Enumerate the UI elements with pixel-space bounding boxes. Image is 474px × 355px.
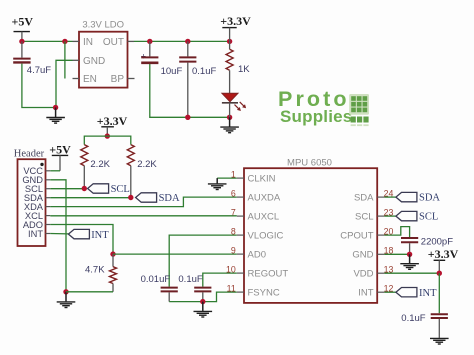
net flag INT (right) [396,288,437,299]
pin 9 stub [231,246,244,256]
resistor 1K [226,41,250,93]
IC U2 MPU 6050 [244,157,377,303]
wire SDA pin 24 [384,196,396,198]
pin 20 stub [377,227,393,237]
connector J1 Header [14,148,51,246]
svg-text:CLKIN: CLKIN [248,174,276,185]
svg-text:VLOGIC: VLOGIC [248,231,284,242]
junction lower rail LED [227,115,232,120]
wire GND net from header [50,180,66,292]
junction at +5V / C1 [19,39,24,44]
svg-text:GND: GND [83,56,105,67]
junction +3.3V / R1 [227,39,232,44]
svg-text:SCL: SCL [419,212,438,223]
svg-text:INT: INT [358,288,374,299]
capacitor 10uF [141,41,183,77]
junction header ground [63,289,68,294]
junction cap ground rail [200,299,205,304]
power symbol +3.3V (regulator output) [220,14,251,41]
wire EN to input rail [64,41,66,78]
ground (C7) [430,338,449,344]
pin 24 stub [377,189,393,199]
ground (LED) [220,117,239,132]
svg-text:SDA: SDA [419,193,440,204]
svg-text:AUXCL: AUXCL [248,212,280,223]
wire SCL pin 23 [384,215,396,217]
pin 11 stub [227,284,244,294]
svg-text:+3.3V: +3.3V [97,114,128,128]
svg-text:MPU 6050: MPU 6050 [287,157,332,168]
wire XCL to AUXCL [50,215,237,217]
wire XDA to AUXDA [50,197,237,207]
wire INT pin 12 [384,291,396,293]
junction SCL [82,186,87,191]
power symbol +3.3V (pullups) [97,114,128,136]
svg-text:0.1uF: 0.1uF [178,274,202,285]
svg-text:IN: IN [83,37,93,48]
svg-text:1K: 1K [238,64,250,75]
resistor R4 4.7K [85,254,117,292]
junction C3 tap [185,39,190,44]
svg-text:AUXDA: AUXDA [248,193,281,204]
pin 7 stub [231,208,244,218]
junction EN tap [62,39,67,44]
svg-text:SCL: SCL [355,212,373,223]
svg-text:0.01uF: 0.01uF [141,274,171,285]
pin 12 stub [377,284,393,294]
pin 13 stub [377,265,393,275]
wire SDA net header to pullup [50,197,131,199]
wire LDO GND pin to ground [56,60,73,105]
svg-text:AD0: AD0 [248,250,266,261]
svg-text:2200pF: 2200pF [421,237,453,248]
ground (CLKIN) [208,178,227,189]
net flag SCL (left) [88,184,130,195]
svg-text:INT: INT [28,229,43,239]
capacitor C7 0.1uF (VDD) [401,313,448,338]
svg-text:+3.3V: +3.3V [428,247,459,261]
svg-text:2.2K: 2.2K [90,159,110,170]
wire GND pin 18 [384,253,409,255]
wire CLKIN to ground [217,177,237,179]
svg-text:SDA: SDA [354,193,374,204]
pin 1 stub [231,170,244,180]
svg-text:GND: GND [352,250,373,261]
wire CPOUT to C6 [384,227,409,237]
junction C2 tap [147,39,152,44]
wire R4 to header ground [66,291,113,293]
wire VDD to C7 [438,273,440,313]
capacitor 0.1uF (LDO out) [179,41,216,117]
svg-text:SCL: SCL [111,184,130,195]
wire +5V rail [22,40,73,42]
junction AD0 / R4 [110,251,115,256]
svg-text:OUT: OUT [103,37,124,48]
net flag SDA (left) [136,193,180,204]
svg-text:6: 6 [231,189,236,199]
wire VCC to +5V [50,170,60,172]
wire LDO OUT rail 3.3V [134,40,230,42]
svg-text:10uF: 10uF [161,66,183,77]
svg-text:INT: INT [91,230,109,241]
junction VDD [437,271,442,276]
svg-text:Header: Header [14,148,45,159]
wire AD0 to pin 9 [113,253,237,255]
wire lower rail to LED ground [188,116,230,118]
svg-text:SDA: SDA [159,193,180,204]
power symbol +5V [12,15,34,42]
ground (pin 18) [400,254,419,269]
pin 8 stub [231,227,244,237]
wire INT net from header [50,233,68,235]
pin 23 stub [377,208,393,218]
capacitor 4.7uF [13,41,51,76]
svg-text:3.3V LDO: 3.3V LDO [82,20,124,31]
svg-text:VDD: VDD [353,269,373,280]
svg-text:BP: BP [111,74,125,85]
svg-text:4.7K: 4.7K [85,264,105,275]
pin 18 stub [377,246,393,256]
wire FSYNC to cap rail [169,292,237,302]
junction pullup rail [105,133,110,138]
resistor R3 2.2K (SDA pullup) [127,145,157,198]
svg-text:7: 7 [231,208,236,218]
svg-text:+5V: +5V [12,15,34,29]
capacitor C6 2200pF [401,237,453,255]
junction SDA [128,195,133,200]
svg-text:REGOUT: REGOUT [248,269,289,280]
svg-text:EN: EN [83,74,97,85]
wire SCL net header to pullup [50,188,84,190]
wire C2 to lower rail [150,64,188,117]
power symbol +5V (header) [49,142,71,170]
junction C6 / GND [407,252,412,257]
regulator U1 3.3V LDO [73,20,135,88]
logo Proto Supplies [278,87,369,126]
wire pullup rail [84,136,131,145]
svg-text:0.1uF: 0.1uF [192,66,216,77]
svg-text:2.2K: 2.2K [137,159,157,170]
junction lower rail C3 [185,115,190,120]
ground (bypass caps) [194,302,213,317]
ground (header) [57,292,76,308]
svg-text:CPOUT: CPOUT [340,231,373,242]
wire REGOUT to C5 [203,273,237,287]
net flag SCL (right) [396,211,438,222]
resistor R2 2.2K (SCL pullup) [81,145,111,189]
ground (input section) [46,108,65,124]
svg-text:4.7uF: 4.7uF [27,65,51,76]
svg-text:+3.3V: +3.3V [220,14,251,28]
capacitor C4 0.01uF [141,274,178,302]
svg-text:+5V: +5V [49,142,71,156]
wire VLOGIC to C4 [169,235,237,287]
svg-text:Supplies: Supplies [280,107,352,126]
pin 6 stub [231,189,244,199]
pin 10 stub [226,265,244,275]
svg-text:FSYNC: FSYNC [248,288,280,299]
capacitor C5 0.1uF [178,274,211,302]
svg-text:0.1uF: 0.1uF [401,313,425,324]
net flag SDA (right) [396,192,441,203]
net flag INT (left) [68,229,109,240]
wire C1 to ground rail [22,64,56,108]
svg-text:INT: INT [419,288,437,299]
junction ground node [53,105,58,110]
wire ADO to AD0 [50,225,113,255]
wire VDD pin 13 to +3.3V [384,272,439,274]
LED D1 [222,93,246,117]
power symbol +3.3V (VDD) [428,247,459,273]
